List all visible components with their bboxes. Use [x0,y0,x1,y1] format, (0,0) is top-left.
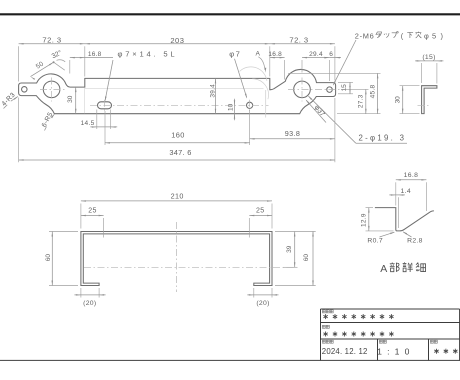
svg-text:2-M6: 2-M6 [355,31,375,40]
svg-text:R0.7: R0.7 [367,238,383,245]
svg-text:16.8: 16.8 [88,51,102,58]
svg-text:): ) [441,31,443,40]
svg-text:φ7×14. 5L: φ7×14. 5L [118,50,178,59]
svg-text:347. 6: 347. 6 [169,148,191,157]
svg-text:1.4: 1.4 [401,188,412,195]
svg-text:60: 60 [303,254,310,262]
svg-text:27.3: 27.3 [358,94,365,108]
svg-text:39: 39 [286,245,293,253]
svg-text:10: 10 [227,103,234,111]
svg-text:15: 15 [341,84,348,92]
svg-text:30: 30 [67,95,74,103]
svg-text:30: 30 [395,96,402,104]
svg-text:φ5: φ5 [424,31,439,40]
svg-text:39.4: 39.4 [210,84,217,98]
svg-text:72. 3: 72. 3 [42,36,61,45]
svg-text:φ7: φ7 [229,50,241,59]
svg-text:16.8: 16.8 [268,51,282,58]
svg-text:16.8: 16.8 [404,172,419,179]
svg-text:A: A [255,50,260,57]
svg-text:12.9: 12.9 [361,213,368,227]
svg-text:29.4: 29.4 [309,51,323,58]
svg-text:2-φ19. 3: 2-φ19. 3 [359,134,407,143]
svg-text:14.5: 14.5 [81,120,95,127]
svg-text:(20): (20) [256,300,269,307]
svg-text:203: 203 [170,36,184,45]
svg-text:R2.8: R2.8 [407,238,423,245]
svg-text:2024. 12. 12: 2024. 12. 12 [322,347,368,356]
svg-text:60: 60 [45,254,52,262]
svg-text:A: A [380,263,387,275]
svg-text:72. 3: 72. 3 [289,36,308,45]
svg-text:25: 25 [256,207,264,214]
svg-text:210: 210 [171,192,184,201]
svg-text:(20): (20) [83,300,96,307]
svg-text:25: 25 [88,207,96,214]
svg-text:1 : 1 0: 1 : 1 0 [377,346,411,356]
svg-text:6: 6 [329,51,333,58]
svg-text:93.8: 93.8 [285,129,300,138]
svg-text:160: 160 [171,131,185,140]
svg-text:45.8: 45.8 [369,85,376,99]
svg-text:(15): (15) [422,54,435,61]
